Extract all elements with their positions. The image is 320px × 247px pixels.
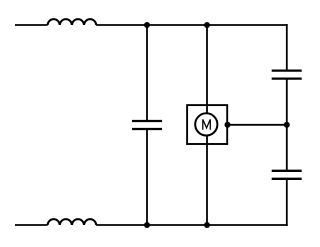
node junction top of C1 branch <box>144 22 150 28</box>
wire C1 top lead <box>146 25 148 120</box>
wire C1 bottom lead <box>146 130 148 225</box>
wire bottom-left lead <box>15 224 48 226</box>
node junction top of motor branch <box>204 22 210 28</box>
wire motor top lead <box>206 25 208 106</box>
wire motor bottom lead <box>206 144 208 225</box>
node junction between C2 and C3 <box>284 122 290 128</box>
inductor L1 <box>48 19 97 25</box>
inductor L2 <box>48 219 97 225</box>
capacitor C3 <box>272 171 302 179</box>
wire right branch lower <box>286 179 288 226</box>
capacitor C2 <box>272 71 302 79</box>
wire right branch upper <box>286 24 288 71</box>
wire bottom rail <box>96 224 288 226</box>
motor M1 <box>187 105 227 144</box>
wire top-left lead <box>15 24 48 26</box>
node junction bottom of C1 branch <box>144 222 150 228</box>
wire top rail <box>96 24 288 26</box>
capacitor C1 <box>132 121 162 129</box>
wire motor to right branch <box>227 124 287 126</box>
node junction bottom of motor branch <box>204 222 210 228</box>
node motor right terminal <box>225 122 231 128</box>
wire right branch middle <box>286 79 288 171</box>
